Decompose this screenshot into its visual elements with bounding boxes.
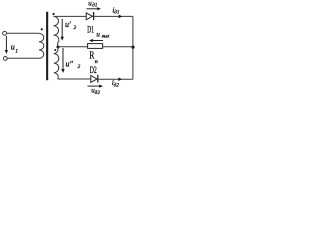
wire secondary bottom to D2 — [58, 78, 91, 80]
svg-text:1: 1 — [15, 49, 18, 55]
polarity dot secondary lower — [54, 49, 56, 51]
transformer core — [46, 12, 48, 80]
svg-text:u″: u″ — [66, 60, 74, 69]
voltage arrow u''2 — [62, 48, 64, 70]
transformer T1 primary winding — [39, 33, 44, 58]
current arrow i_d1 — [119, 15, 123, 19]
wire D2 to right rail — [97, 78, 133, 80]
svg-text:u: u — [11, 43, 15, 52]
svg-text:вых: вых — [102, 35, 110, 40]
svg-text:D1: D1 — [87, 25, 94, 35]
wire center tap to resistor — [58, 46, 88, 48]
input terminal bottom — [3, 57, 7, 61]
svg-text:u′: u′ — [65, 20, 71, 29]
svg-text:2: 2 — [78, 64, 81, 70]
svg-text:д1: д1 — [114, 11, 119, 16]
wire top-left horizontal — [7, 32, 40, 34]
svg-text:д2: д2 — [114, 83, 120, 88]
transformer secondary lower winding — [54, 47, 59, 79]
svg-text:2: 2 — [74, 25, 77, 31]
input terminal top — [3, 31, 7, 35]
svg-text:д2: д2 — [95, 91, 101, 96]
wire resistor to right rail — [103, 46, 133, 48]
transformer secondary upper winding — [54, 16, 59, 46]
voltage arrow u1 — [5, 36, 7, 51]
polarity dot primary — [41, 28, 43, 30]
voltage arrow u_d2 — [88, 85, 100, 87]
node junction center tap — [57, 46, 60, 49]
wire right rail — [132, 16, 134, 79]
voltage arrow u_d1 — [87, 8, 99, 10]
svg-text:u: u — [96, 31, 100, 39]
voltage arrow u_vyh — [93, 40, 103, 42]
svg-text:д1: д1 — [92, 4, 97, 9]
wire D1 to right rail — [92, 15, 132, 17]
diode D1 — [86, 13, 92, 20]
wire bottom-left horizontal — [7, 57, 39, 59]
node junction right rail — [131, 46, 134, 49]
voltage arrow u'2 — [61, 19, 63, 38]
resistor Rn — [88, 44, 103, 49]
polarity dot secondary upper — [53, 13, 55, 15]
wire secondary top to D1 — [54, 15, 87, 17]
current arrow i_d2 — [118, 77, 122, 81]
svg-text:D2: D2 — [90, 65, 97, 75]
diode D2 — [91, 76, 97, 83]
